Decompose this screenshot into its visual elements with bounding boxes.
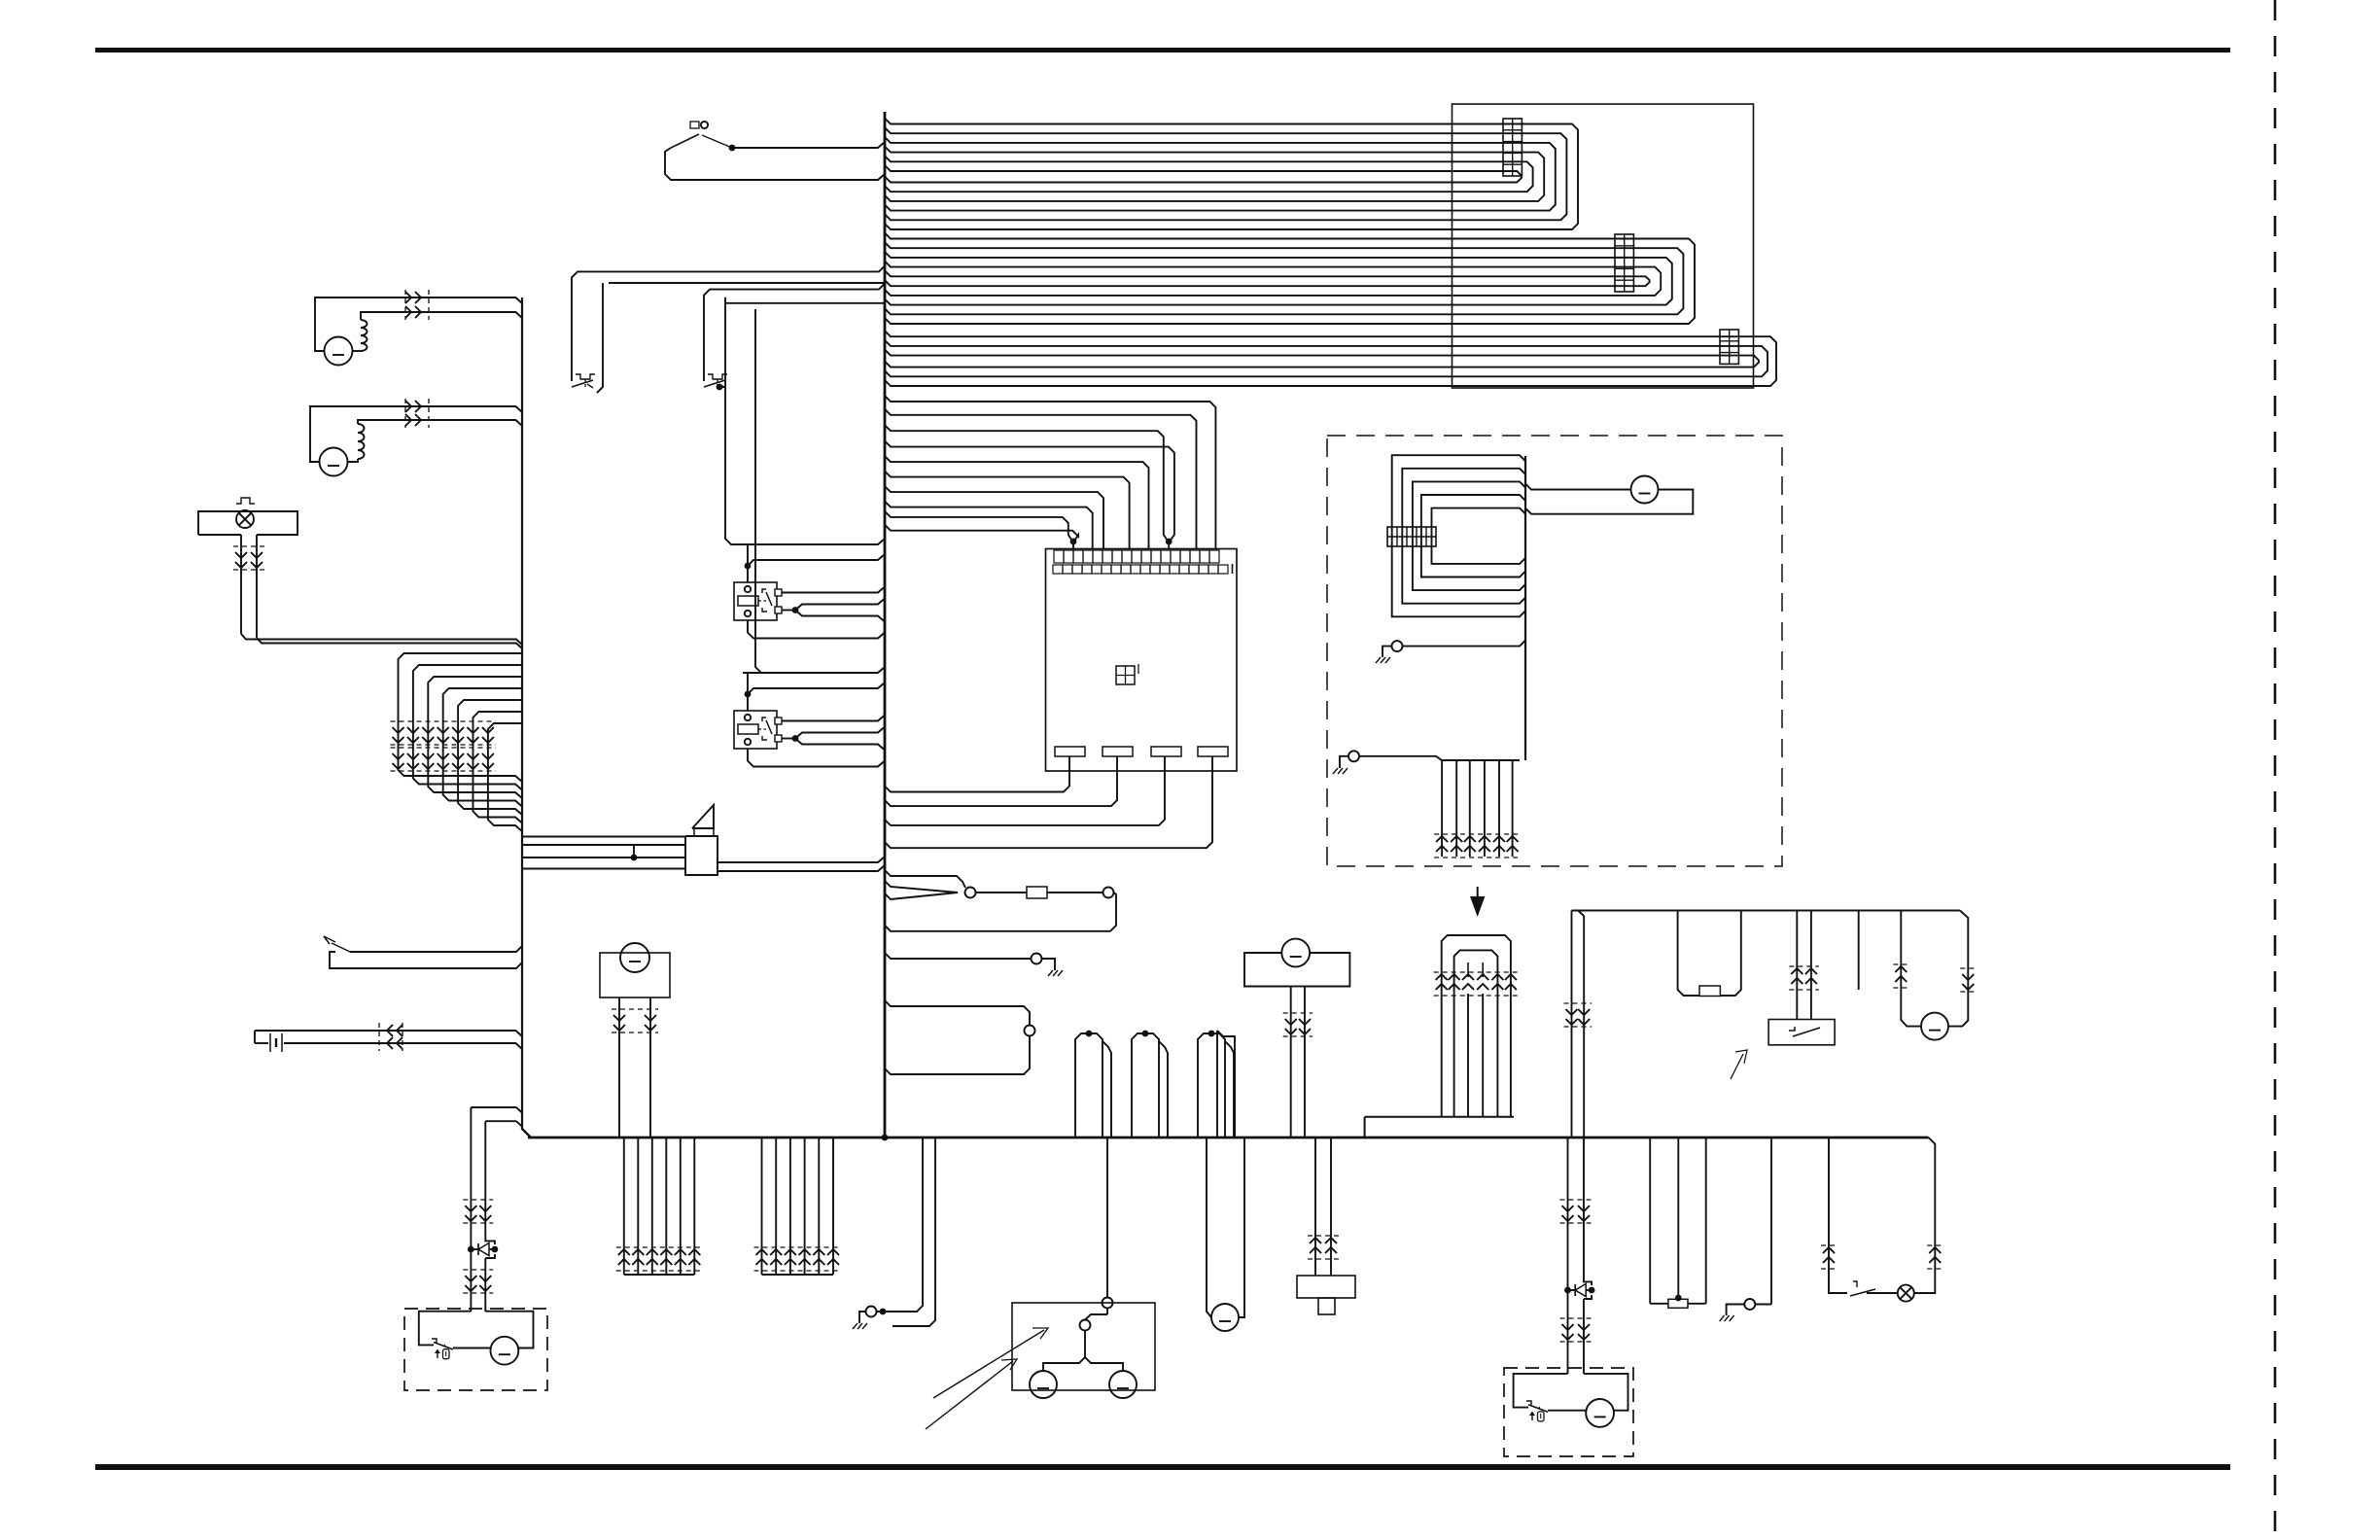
wire pair to door switch left bbox=[572, 265, 885, 381]
accessory switch lever bbox=[1789, 1027, 1795, 1031]
lamp circuit bottom wiring bbox=[1829, 1287, 1847, 1293]
connector block (2x3) right bbox=[1720, 330, 1738, 364]
annotation arrow B bbox=[926, 1361, 1013, 1429]
annotation arrow C bbox=[1731, 1054, 1743, 1079]
relay K1 box bbox=[734, 582, 777, 620]
motor M9 body bbox=[620, 943, 649, 972]
fuel gauge icon bbox=[437, 1350, 438, 1358]
wire main horizontal trunk (bottom harness) bbox=[528, 1137, 1929, 1139]
lamp L1 bulb bbox=[236, 510, 254, 528]
heater unit spine bbox=[1524, 456, 1526, 760]
connector on switch pair bbox=[1789, 989, 1819, 991]
washer unit motor A bbox=[1030, 1371, 1057, 1398]
motor M9 box bbox=[600, 953, 670, 997]
switch S2 return wire bbox=[665, 148, 885, 180]
wire main vertical trunk (center harness) bbox=[884, 112, 887, 1137]
motor M6 body bbox=[1921, 1013, 1948, 1040]
wire bus to motor M6 bbox=[1901, 911, 1921, 1027]
wire hairpin group 2 bbox=[1132, 1033, 1143, 1137]
wire U-loop collector to trunk bbox=[1365, 1116, 1514, 1118]
ground port circle center bbox=[866, 1307, 877, 1317]
connector on lamp circuit left bbox=[1821, 1268, 1837, 1270]
wire left vertical trunk bbox=[521, 297, 523, 1130]
wire riser to relay K1 bbox=[725, 391, 743, 544]
fuel gauge icon 2 bbox=[1531, 1413, 1533, 1420]
rear motor stem bbox=[1290, 987, 1292, 1138]
resistor R1 drop wires bbox=[1649, 1137, 1651, 1304]
wire purge circuit upper bbox=[885, 870, 965, 888]
fuse F2 in purge line bbox=[976, 892, 1028, 893]
relay K2 wiring bbox=[743, 667, 885, 673]
wire hairpin group 1 bbox=[1075, 1033, 1087, 1137]
wire pair to ground center bbox=[877, 1137, 923, 1312]
relay K1 wiring bbox=[743, 539, 885, 544]
heater blower wiring bbox=[1525, 484, 1630, 490]
wire accessory bus bbox=[1572, 910, 1961, 912]
control unit U1 logo mark bbox=[1116, 666, 1135, 684]
lamp stem joins left trunk bbox=[241, 634, 522, 645]
motor M2 wiring bbox=[310, 406, 522, 462]
connector on rear motor stem bbox=[1283, 1012, 1312, 1014]
connector pair lower on fuel drop bbox=[463, 1269, 493, 1271]
node door switch right junction bbox=[717, 384, 723, 391]
wire bundle lower-left 2 bbox=[761, 1137, 763, 1275]
harness enclosure box (connector area) bbox=[1452, 104, 1754, 388]
heater harness 6 wires down bbox=[1441, 760, 1443, 857]
connector on motor M9 wires bbox=[612, 1008, 658, 1010]
diode D1 bbox=[468, 1246, 474, 1253]
switch S2 glyph bbox=[690, 122, 699, 128]
connector block (2x5) top bbox=[1503, 119, 1522, 176]
fuel sender switch bbox=[432, 1339, 437, 1343]
connector block (2x5) middle bbox=[1615, 234, 1633, 292]
fuel tank unit 2 dashed box bbox=[1504, 1368, 1633, 1456]
diode D2 bbox=[1564, 1287, 1571, 1294]
wire hairpin pair right bbox=[1217, 1031, 1235, 1137]
fuel pump M3 bbox=[491, 1337, 519, 1365]
wires left trunk to horn bbox=[522, 836, 685, 838]
wire bundle (7) from left trunk bbox=[399, 653, 523, 782]
page border top rule bbox=[95, 48, 2230, 52]
connector on motor return bbox=[1960, 967, 1976, 969]
relay K2 box bbox=[734, 711, 777, 749]
horn feed to trunk bbox=[717, 857, 885, 862]
connector rows bundle 2 bbox=[754, 1270, 842, 1272]
connector on T-bracket pair bbox=[1308, 1258, 1339, 1260]
wire bundle lower-left 1 bbox=[623, 1137, 625, 1275]
wire to ground port bbox=[885, 953, 1032, 959]
resistor R1 body bbox=[1650, 1303, 1668, 1305]
motor M1 body bbox=[325, 337, 353, 366]
wire drop pair to fuel pump left bbox=[516, 1107, 522, 1113]
fuel tank unit dashed box bbox=[404, 1309, 547, 1390]
connector pair lower right bbox=[1560, 1317, 1592, 1319]
connector row on 7-wire bundle upper bbox=[391, 720, 496, 722]
page fold dashed separator (right) bbox=[2274, 0, 2277, 1540]
lamp L2 bulb bbox=[1898, 1285, 1914, 1302]
connector on lamp stem bbox=[233, 545, 264, 547]
wire door switch right risers bbox=[719, 297, 725, 387]
heater ground port 2 bbox=[1348, 751, 1359, 761]
control unit U1 bottom pads bbox=[1055, 747, 1085, 756]
connector rows bundle 1 bbox=[616, 1270, 703, 1272]
purge port circle right bbox=[1103, 888, 1114, 898]
switch S2 wiring bbox=[702, 135, 732, 148]
connector on sensor pair bbox=[402, 1023, 403, 1051]
wire bus drop pair to switch bbox=[1796, 911, 1798, 1020]
connector on lamp circuit right bbox=[1927, 1268, 1942, 1270]
fuel sender switch 2 bbox=[1526, 1401, 1531, 1405]
washer unit box bbox=[1012, 1303, 1155, 1390]
control unit U1 top pin header bbox=[1054, 550, 1064, 563]
node junction trunk center/bottom bbox=[882, 1135, 889, 1141]
wire U-loop outer bbox=[1442, 935, 1511, 1117]
motor M8 body bbox=[1211, 1304, 1239, 1331]
connector on motor M1 wires bbox=[404, 290, 406, 320]
motor M1 wiring bbox=[315, 297, 522, 351]
sensor T-bracket body bbox=[1297, 1276, 1355, 1298]
wire bus drop pair left bbox=[1571, 911, 1573, 1138]
page border bottom rule bbox=[95, 1464, 2230, 1470]
rear motor M5 body bbox=[1281, 939, 1310, 967]
wire loom group A to connector block bbox=[885, 119, 1578, 230]
fuel tank unit 2 body bbox=[1514, 1374, 1568, 1408]
purge valve port circle bbox=[965, 888, 976, 898]
heater unit dashed enclosure bbox=[1327, 436, 1782, 866]
heater connector block (2 rows x 5) bbox=[1387, 527, 1436, 546]
sensor plates symbol bbox=[269, 1033, 271, 1052]
washer unit motor B bbox=[1109, 1371, 1137, 1398]
motor M6 return wire bbox=[1948, 911, 1968, 1027]
door switch left bbox=[576, 374, 595, 379]
switch S3 wiring bbox=[330, 952, 522, 968]
heater ground port 1 bbox=[1392, 641, 1403, 651]
wire U-loop inner bbox=[1454, 950, 1498, 1116]
lamp L1 pulse mark bbox=[236, 498, 255, 504]
ground port circle bbox=[1032, 954, 1042, 964]
wire bus stub bbox=[1858, 911, 1860, 991]
ground port circle right bbox=[1770, 1137, 1772, 1305]
lamp L1 housing bbox=[198, 511, 297, 535]
wire loom group C to connector block bbox=[885, 331, 1776, 386]
horn housing bbox=[685, 836, 717, 875]
wire sensor loop bbox=[885, 1000, 1030, 1026]
wire purge return bbox=[885, 892, 1116, 931]
ground G4 symbol bbox=[1727, 1305, 1745, 1312]
horn symbol bbox=[692, 805, 714, 828]
heater resistor loops bbox=[1392, 455, 1525, 616]
accessory switch box bbox=[1768, 1020, 1835, 1045]
washer unit port inner bbox=[1080, 1320, 1091, 1331]
connector row heater harness bbox=[1434, 857, 1521, 858]
wire pair to door switch right bbox=[704, 284, 885, 381]
switch S2 lever bbox=[671, 134, 699, 148]
annotation arrow A bbox=[933, 1330, 1044, 1398]
lamp switch lever bbox=[1853, 1281, 1857, 1287]
sensor T-bracket wires bbox=[1314, 1137, 1316, 1276]
wire hairpin group 3 bbox=[1198, 1033, 1209, 1137]
wires control unit bottom pads to trunk bbox=[1068, 756, 1070, 771]
connector pair upper right bbox=[1560, 1199, 1592, 1201]
rear motor housing bbox=[1244, 953, 1291, 987]
connector on bus drop pair bbox=[1564, 1002, 1592, 1004]
wire loom group B to connector block bbox=[885, 233, 1695, 325]
connector row on 7-wire bundle lower bbox=[391, 747, 496, 749]
sensor wiring pair bbox=[254, 1031, 256, 1043]
continuation arrow (down) bbox=[1477, 887, 1479, 896]
door switch right bbox=[708, 374, 727, 379]
wire drop pair to fuel pump right bbox=[1567, 1137, 1569, 1374]
fuse F3 loop bbox=[1678, 911, 1699, 997]
wire U-loop middle pair bbox=[1467, 994, 1469, 1117]
fuel tank unit body bbox=[419, 1312, 472, 1346]
ground G2 symbol bbox=[1042, 959, 1056, 965]
washer unit port top bbox=[1102, 1298, 1113, 1309]
motor M8 drop bbox=[1207, 1137, 1211, 1317]
motor M2 field coil bbox=[358, 450, 365, 459]
heater blower motor M4 bbox=[1631, 476, 1659, 504]
connector on motor M6 wire bbox=[1893, 987, 1908, 989]
connector row U-loop bbox=[1434, 995, 1519, 997]
motor M1 field coil bbox=[353, 350, 362, 352]
motor M9 drop wires bbox=[618, 997, 620, 1137]
wire purge X pair bbox=[885, 881, 958, 892]
control unit U1 box bbox=[1046, 549, 1238, 772]
wire fan into control unit top bbox=[885, 396, 1215, 548]
connector on motor M2 wires bbox=[404, 399, 406, 428]
lamp circuit drop wires bbox=[1828, 1137, 1830, 1287]
connector pair upper on fuel drop bbox=[463, 1199, 493, 1201]
lamp L1 stem wires bbox=[240, 535, 242, 634]
motor M2 body bbox=[320, 448, 348, 476]
switch S3 lever bbox=[324, 936, 335, 944]
fuel pump M7 bbox=[1586, 1399, 1614, 1427]
wire riser to relay K2 bbox=[755, 309, 761, 673]
ground G3 symbol bbox=[859, 1312, 866, 1318]
